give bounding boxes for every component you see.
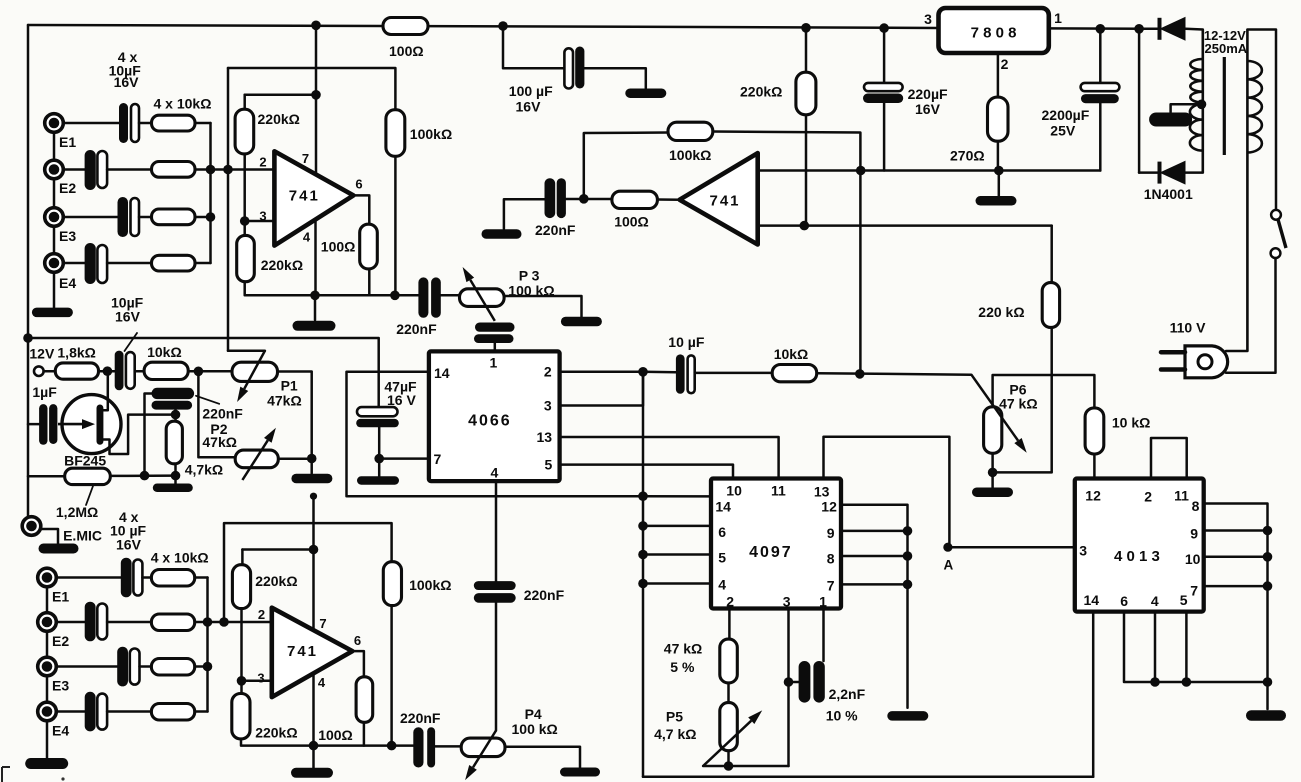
wire rail to 100uF xyxy=(503,26,564,68)
svg-text:47kΩ: 47kΩ xyxy=(202,434,237,450)
node pin3 U1 xyxy=(240,216,250,226)
wire 220uF top stem xyxy=(883,28,886,83)
ground P3 xyxy=(561,317,602,327)
ground input chain top xyxy=(32,308,73,318)
svg-text:14: 14 xyxy=(715,499,731,515)
jack E2 bottom xyxy=(38,613,57,632)
svg-text:BF245: BF245 xyxy=(64,453,106,469)
capacitor 10uF mid plus plate xyxy=(688,355,695,393)
wire E1 cap to resistor xyxy=(139,122,152,125)
capacitor E2b plus plate xyxy=(97,604,107,640)
svg-text:5: 5 xyxy=(1180,592,1188,608)
wire E4 cap to resistor xyxy=(107,262,151,265)
node A xyxy=(943,543,952,552)
arrow P2 wiper xyxy=(242,440,267,480)
node 4013 pin9 bus xyxy=(1263,526,1273,536)
svg-text:5 %: 5 % xyxy=(670,659,695,675)
svg-text:E2: E2 xyxy=(52,633,69,649)
resistor 220k upper U5 xyxy=(232,565,250,609)
svg-text:100kΩ: 100kΩ xyxy=(409,577,451,593)
capacitor 47uF plus plate xyxy=(357,407,398,416)
svg-text:4097: 4097 xyxy=(749,544,793,561)
op-amp U2 741 xyxy=(680,153,758,244)
capacitor E2 10uF minus plate xyxy=(85,150,96,190)
wire bus to 4097 pin6 xyxy=(643,525,711,528)
wire 4013 pin9 xyxy=(1204,529,1268,532)
node pin4 common xyxy=(1150,677,1160,687)
wire P3 to ground xyxy=(504,296,581,317)
svg-text:P5: P5 xyxy=(666,709,683,725)
capacitor 220nF U5 out plate A xyxy=(413,727,423,767)
switch S1 mains xyxy=(1271,210,1281,220)
svg-text:741: 741 xyxy=(289,188,320,205)
svg-text:10kΩ: 10kΩ xyxy=(774,346,809,362)
node 4066 pins2-3 xyxy=(638,367,648,377)
wire 4066 pin7 xyxy=(379,457,429,460)
capacitor 220uF plus plate xyxy=(864,83,903,91)
wire E3b jack to cap xyxy=(56,665,117,668)
wire 4013 pin14 to bottom rail xyxy=(1092,612,1095,777)
wire E1b jack to cap xyxy=(56,576,121,579)
resistor E1b 10k xyxy=(151,570,194,587)
node P5 bottom xyxy=(724,761,734,771)
svg-text:E1: E1 xyxy=(52,589,69,605)
ground supply common xyxy=(976,196,1017,206)
svg-text:10: 10 xyxy=(1185,551,1201,567)
wire 4013 pin7 xyxy=(1204,585,1268,588)
svg-text:14: 14 xyxy=(434,365,450,381)
wire E2 cap to resistor xyxy=(107,168,151,171)
node pin5 common xyxy=(1182,677,1192,687)
wire input jack chain E1-E4 top xyxy=(53,123,56,272)
svg-text:16V: 16V xyxy=(114,74,140,90)
wire 220nF to P3 xyxy=(441,294,460,297)
wire 4013 pin5 down xyxy=(1185,612,1188,682)
svg-text:4 0 1 3: 4 0 1 3 xyxy=(1114,548,1160,565)
node pin4/ground U5 xyxy=(309,741,319,751)
wire E2b cap to resistor xyxy=(107,621,151,624)
ground 220nF U2 xyxy=(482,229,522,239)
svg-text:1: 1 xyxy=(1054,10,1062,26)
wire summing bus top xyxy=(209,123,212,263)
wire summing node to op-amp pin2 xyxy=(195,168,276,171)
svg-text:2200µF: 2200µF xyxy=(1042,107,1090,123)
arrow P3 wiper xyxy=(470,280,495,321)
capacitor E4b minus plate xyxy=(85,692,96,732)
wire E2 jack to cap xyxy=(63,168,86,171)
svg-text:2: 2 xyxy=(726,594,734,610)
ground P6 xyxy=(972,487,1013,497)
wire cap to 4066 pin1 xyxy=(494,343,497,352)
wire pin3 stub U1 xyxy=(245,220,276,223)
capacitor 220nF P2 plate B xyxy=(152,401,193,410)
node 100k/output U5 xyxy=(387,741,397,751)
wire callout 10uF label xyxy=(125,333,138,351)
wire 12V to 1.8k xyxy=(44,370,56,373)
arrow P4 wiper xyxy=(473,731,496,768)
wire to 2.2nF xyxy=(789,681,799,684)
node bus E2 top xyxy=(206,165,216,175)
node feedback vert on common rail xyxy=(856,166,866,176)
wire 220k upper to pin3 U1 xyxy=(243,154,246,236)
resistor E2b 10k xyxy=(151,614,194,631)
svg-text:8: 8 xyxy=(1192,498,1200,514)
wire between diodes xyxy=(1138,29,1141,173)
jack E4 top xyxy=(45,254,64,273)
wire 100R to U2 output xyxy=(657,198,681,201)
wire E4 resistor to bus xyxy=(195,262,211,265)
svg-text:100kΩ: 100kΩ xyxy=(410,126,452,142)
wire frame to 1uF xyxy=(28,423,39,426)
wire rail to switch xyxy=(1247,30,1276,211)
wire 100R to node U1 xyxy=(368,269,371,295)
transformer T1 primary feed line xyxy=(1246,30,1249,352)
resistor 270R xyxy=(988,97,1009,141)
wire pin3 stub U5 xyxy=(242,680,274,683)
svg-text:E.MIC: E.MIC xyxy=(63,528,102,544)
svg-text:4: 4 xyxy=(718,577,726,593)
wire 4097 pin7 xyxy=(841,583,908,586)
wire step to P1 wiper xyxy=(228,350,265,353)
svg-text:13: 13 xyxy=(537,429,553,445)
svg-text:47 kΩ: 47 kΩ xyxy=(664,641,702,657)
wire 100k to output node U5 xyxy=(390,606,393,746)
svg-text:220µF: 220µF xyxy=(908,86,948,102)
ground input chain bottom xyxy=(25,758,68,769)
svg-text:1N4001: 1N4001 xyxy=(1144,186,1193,202)
wire feed to P2 xyxy=(198,371,235,457)
wire P6 bottom to ground xyxy=(991,453,994,487)
wire 4066 pin3 out xyxy=(560,372,643,406)
wire pin6 output U1 xyxy=(353,195,369,224)
node 100uF rail junction xyxy=(498,21,508,31)
wire 4013 pin10 xyxy=(1204,556,1268,559)
wire 10uF to 10k xyxy=(695,372,773,375)
wire pin4 vertical U5 xyxy=(312,655,315,746)
svg-text:1,8kΩ: 1,8kΩ xyxy=(57,345,95,361)
wire 220k top to pin7 U1 xyxy=(245,94,316,97)
ground E.MIC xyxy=(39,544,79,554)
capacitor 2200uF plus plate xyxy=(1081,83,1120,91)
capacitor P3 wiper plate B xyxy=(474,334,514,343)
svg-text:16V: 16V xyxy=(115,309,141,325)
jack E4 bottom xyxy=(38,702,57,721)
resistor 100k feedback U1 xyxy=(386,110,405,157)
wire input jack chain bottom xyxy=(46,578,49,758)
svg-text:9: 9 xyxy=(827,525,835,541)
wire 220nF to 4.7k xyxy=(174,410,177,422)
svg-text:220kΩ: 220kΩ xyxy=(255,573,297,589)
diode D2 1N4001 bottom xyxy=(1158,162,1162,184)
svg-text:2: 2 xyxy=(544,364,552,380)
node frame/border junction xyxy=(23,333,33,343)
capacitor E3b plus plate xyxy=(130,649,140,685)
svg-text:E4: E4 xyxy=(59,275,76,291)
resistor E3b 10k xyxy=(151,659,194,676)
svg-text:3: 3 xyxy=(1079,543,1087,559)
capacitor E2b minus plate xyxy=(85,602,96,642)
node feedback pin2 U1 xyxy=(223,165,233,175)
wire to 220k upper U5 xyxy=(241,550,244,565)
wire P5 to bottom xyxy=(727,751,730,766)
svg-text:10: 10 xyxy=(726,483,742,499)
svg-text:P1: P1 xyxy=(281,378,298,394)
svg-text:10 µF: 10 µF xyxy=(668,334,705,350)
svg-text:P4: P4 xyxy=(525,706,542,722)
svg-text:220nF: 220nF xyxy=(202,406,243,422)
wire feedback top U1 to 100k xyxy=(228,68,395,110)
op-amp U1 741 xyxy=(274,151,353,245)
resistor 220k upper U1 xyxy=(235,109,254,154)
wire chain to ground top xyxy=(53,272,56,308)
wire 100R to node U5 xyxy=(363,722,366,745)
svg-text:100Ω: 100Ω xyxy=(389,43,424,59)
svg-text:11: 11 xyxy=(771,483,786,499)
resistor 220k lower U1 xyxy=(237,235,255,281)
BF245 gate arrow xyxy=(58,423,82,426)
ground U5 xyxy=(291,768,333,778)
arrow P6 wiper xyxy=(971,375,1018,441)
capacitor 220nF U5 out plate B xyxy=(427,727,435,767)
capacitor E1 10uF minus plate xyxy=(119,103,128,143)
terminal 12V input xyxy=(34,366,44,376)
BF245 channel bar xyxy=(97,405,104,445)
svg-text:47 kΩ: 47 kΩ xyxy=(999,396,1037,412)
node feedback pin2 U5 xyxy=(219,617,229,627)
node 220uF rail junction xyxy=(879,23,889,33)
capacitor 10uF 12V plus plate xyxy=(126,352,135,389)
wire 100k to output node U1 xyxy=(394,156,397,295)
svg-text:4: 4 xyxy=(303,230,311,245)
wire to 220k upper U1 xyxy=(243,95,246,109)
svg-text:3: 3 xyxy=(257,671,264,686)
wire to D2 cathode xyxy=(1139,171,1159,174)
svg-text:220kΩ: 220kΩ xyxy=(740,84,782,100)
svg-text:7 8 0 8: 7 8 0 8 xyxy=(971,25,1017,42)
wire 10uF to 10k left xyxy=(135,370,144,373)
svg-text:220kΩ: 220kΩ xyxy=(258,111,300,127)
node bus E3 bottom xyxy=(203,662,213,672)
wire pin7 vertical U5 xyxy=(312,496,315,640)
svg-text:2: 2 xyxy=(1144,489,1152,505)
wire 4066 pin5 to 4097 pin10 xyxy=(560,465,733,479)
wire switch to plug xyxy=(1226,258,1276,373)
wire primary to plug xyxy=(1226,350,1247,353)
node P1/P2 ground xyxy=(307,454,317,464)
wire E4b to bus xyxy=(195,710,208,713)
svg-text:E2: E2 xyxy=(59,180,76,196)
svg-text:E3: E3 xyxy=(52,678,69,694)
wire callout 220nF P2 xyxy=(196,396,219,404)
svg-text:6: 6 xyxy=(355,177,362,192)
wire 4066 pin4 chain to P4 wiper xyxy=(495,603,498,731)
resistor 100k feedback U5 xyxy=(383,562,401,606)
transformer T1 secondary feed line xyxy=(1202,30,1205,173)
node 4097 pin9 gnd bus xyxy=(903,526,913,536)
wire to ground P1P2 xyxy=(310,459,313,474)
resistor E4b 10k xyxy=(151,704,194,721)
wire P6 top to 10k right xyxy=(993,375,1095,408)
capacitor E1b plus plate xyxy=(133,560,142,596)
resistor 47k 5% xyxy=(720,639,738,683)
resistor 220k right xyxy=(1042,283,1059,328)
resistor E3 10k top xyxy=(152,209,196,225)
svg-text:220nF: 220nF xyxy=(396,321,437,337)
jack E3 bottom xyxy=(38,657,57,676)
jack E1 top xyxy=(45,114,64,133)
svg-text:4,7kΩ: 4,7kΩ xyxy=(185,462,223,478)
node bus 4097 pin5 xyxy=(638,550,648,560)
wire 10k to P6 wiper xyxy=(817,373,972,375)
svg-text:4: 4 xyxy=(1151,593,1159,609)
capacitor 10uF 12V minus plate xyxy=(115,351,124,391)
wire left frame down to E.MIC node xyxy=(27,25,30,518)
ground P4 xyxy=(560,768,600,777)
transistor Q1 BF245 xyxy=(62,395,121,454)
svg-text:P 3: P 3 xyxy=(519,268,540,284)
wire 4066 pin14 supply loop xyxy=(347,372,644,496)
capacitor E2 10uF plus plate xyxy=(97,151,107,188)
node pin7 junction U1 xyxy=(311,90,321,100)
wire 1.2M to node xyxy=(110,474,175,477)
node 4.7k bottom xyxy=(171,471,181,481)
wire E1b to bus xyxy=(195,576,208,579)
svg-text:12: 12 xyxy=(821,499,837,515)
resistor E4 10k top xyxy=(152,255,196,271)
svg-text:E3: E3 xyxy=(59,228,76,244)
wire 2200uF top stem xyxy=(1099,29,1102,83)
node bus E3 top xyxy=(206,212,216,222)
node source/220nF/4.7k xyxy=(171,410,181,420)
svg-text:10 kΩ: 10 kΩ xyxy=(1112,415,1150,431)
wire bottom rail xyxy=(643,775,1093,778)
svg-text:3: 3 xyxy=(924,11,932,27)
svg-text:270Ω: 270Ω xyxy=(950,148,985,164)
svg-text:16 V: 16 V xyxy=(387,392,416,408)
wire U2 inverting input line xyxy=(758,224,1052,227)
svg-text:6: 6 xyxy=(354,633,361,648)
node pin7 rail junction xyxy=(311,21,321,31)
wire 4013 pin8 down right xyxy=(1204,504,1268,683)
resistor 10k right xyxy=(1085,408,1104,454)
wire feedback U5 xyxy=(224,523,392,622)
node 4097 pin7 gnd bus xyxy=(903,580,913,590)
wire feedback right and down U2 xyxy=(713,132,861,374)
node 220k mid on input line xyxy=(800,221,810,231)
wire bus to 4097 pin4 xyxy=(643,582,711,585)
node 100k/output U1 xyxy=(390,291,400,301)
capacitor 220nF 4066 plate A xyxy=(474,581,516,590)
capacitor E3 10uF plus plate xyxy=(131,198,140,236)
wire 10k to P1 xyxy=(188,370,232,373)
jack E2 top xyxy=(45,160,64,179)
capacitor 2.2nF plate B xyxy=(813,661,824,703)
node 47uF/pin7 xyxy=(374,454,384,464)
jack E.MIC xyxy=(22,517,41,536)
wire BF245 drain to 12V xyxy=(103,371,107,410)
resistor 100R U2 input xyxy=(612,191,658,208)
wire E3 cap to resistor xyxy=(139,216,152,219)
capacitor E1 10uF plus plate xyxy=(131,104,139,142)
capacitor 2.2nF plate A xyxy=(799,661,811,703)
wire supply common rail xyxy=(758,169,1101,172)
capacitor 220nF U1 out plate A xyxy=(418,277,428,317)
resistor 100R top rail xyxy=(383,18,428,35)
svg-text:7: 7 xyxy=(827,578,835,594)
ground 100uF xyxy=(625,88,666,98)
wire 4097 pin1 to 2.2nF xyxy=(822,609,825,662)
svg-text:100Ω: 100Ω xyxy=(614,214,649,230)
wire rail to 220k mid xyxy=(805,28,808,72)
svg-text:1,2MΩ: 1,2MΩ xyxy=(56,504,98,520)
capacitor 220nF 4066 plate B xyxy=(474,593,516,603)
node diode branch junction xyxy=(1134,24,1144,34)
op-amp U5 741 xyxy=(272,608,353,697)
wire summing node bottom to pin2 xyxy=(195,621,274,624)
svg-text:9: 9 xyxy=(1190,526,1198,542)
transformer T1 secondary winding bumps xyxy=(1190,59,1203,151)
svg-text:6: 6 xyxy=(1120,593,1128,609)
wire to ground 4013 xyxy=(1266,682,1269,709)
wire 4097 pin13 to node A xyxy=(824,437,950,547)
transformer T1 primary winding bumps xyxy=(1247,61,1262,153)
resistor 4.7k xyxy=(166,421,182,464)
wire top supply rail left of 7808 xyxy=(28,25,939,28)
wire 270R to common rail xyxy=(997,141,1000,170)
node secondary center tap xyxy=(1197,100,1207,110)
wire 220k right up xyxy=(1050,226,1053,283)
wire E3 resistor to bus xyxy=(195,216,211,219)
svg-text:E4: E4 xyxy=(52,723,69,739)
wire 1.2M to gate node xyxy=(28,475,65,478)
node bus E2 bottom xyxy=(203,617,213,627)
wire E3b to bus xyxy=(195,665,208,668)
node bypass bottom xyxy=(140,471,150,481)
node pin3/2.2nF xyxy=(784,677,794,687)
wire E4b jack to cap xyxy=(56,710,85,713)
svg-text:2: 2 xyxy=(258,607,265,622)
wire pin7 vertical U1 xyxy=(315,25,318,185)
wire to supply ground xyxy=(998,171,1001,197)
wire node A to 4013 pin3 xyxy=(948,546,1075,549)
wire 4066 pin2 out xyxy=(560,371,643,374)
ground 47uF xyxy=(357,476,399,485)
node P1/P2 feed xyxy=(194,367,204,377)
svg-text:14: 14 xyxy=(1084,592,1100,608)
svg-text:1: 1 xyxy=(490,355,498,371)
wire 4013 pins2-11 loop xyxy=(1151,438,1187,479)
potentiometer P5 body xyxy=(720,703,738,751)
wire 4013 pin4 down xyxy=(1154,612,1157,682)
svg-text:741: 741 xyxy=(710,193,741,210)
resistor E1 10k top xyxy=(152,115,196,131)
svg-text:100 kΩ: 100 kΩ xyxy=(512,721,558,737)
svg-text:6: 6 xyxy=(718,524,726,540)
wire control bus vertical xyxy=(642,372,645,777)
wire E.MIC to ground xyxy=(40,529,58,543)
ground 4.7k xyxy=(153,484,193,493)
resistor 1.8k xyxy=(55,363,98,379)
wire 220k upper to pin3 U5 xyxy=(240,609,243,694)
svg-text:741: 741 xyxy=(287,643,318,660)
capacitor 47uF minus plate xyxy=(356,419,399,427)
resistor 100R output U5 xyxy=(356,677,373,723)
wire E4b cap to resistor xyxy=(107,710,151,713)
wire 1.8k to 10uF xyxy=(99,370,115,373)
IC U3 4066 box xyxy=(429,351,560,481)
svg-text:4: 4 xyxy=(318,675,326,690)
wire D1 to secondary top xyxy=(1186,28,1203,31)
